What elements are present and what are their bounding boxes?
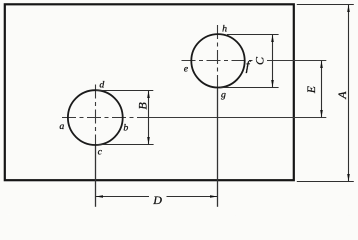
svg-text:B: B [136,102,150,110]
dim C arrow down [271,80,274,88]
dim A arrow down [347,174,350,182]
svg-text:a: a [59,121,64,132]
right hole centerline vertical extension [216,89,218,207]
label C [253,54,268,68]
right hole centerline horizontal (through e-f, extends to E dim) [182,60,251,62]
svg-text:g: g [221,90,226,101]
dim C extension line top [227,34,279,36]
dim A extension line top [297,4,354,6]
right hole centerline vertical (through g-h, extends to D dim) [217,25,219,89]
left hole centerline horizontal extension [137,116,326,118]
dim E arrow up [320,61,323,69]
dim D arrow left [95,195,103,198]
dim C extension line bottom [220,87,279,89]
dim A extension line bottom [297,181,354,183]
svg-text:c: c [98,146,103,157]
plate outline [5,4,294,180]
dim E line [320,61,322,118]
label D [149,192,167,205]
right hole centerline horizontal extension [250,60,326,62]
svg-text:D: D [152,193,162,207]
dim A arrow up [347,5,350,13]
dim B arrow down [147,137,150,145]
dim C arrow up [271,35,274,43]
svg-text:d: d [99,79,104,90]
dim B extension line top [96,89,153,91]
dim C line [272,35,274,88]
dim B arrow up [147,90,150,98]
right hole circle [191,34,244,87]
svg-text:b: b [123,122,128,133]
dim E arrow down [320,110,323,118]
svg-text:e: e [184,63,189,74]
svg-text:h: h [222,23,227,34]
left hole circle [68,90,123,145]
svg-text:A: A [335,91,349,100]
left hole centerline vertical extension [94,146,96,207]
svg-text:E: E [306,86,318,94]
dim B extension line bottom [96,143,154,145]
dim B line [147,90,149,144]
svg-text:C: C [253,56,267,65]
dim D arrow right [210,195,218,198]
dim A line [347,5,349,182]
left hole centerline vertical (through c-d, extends to D dim) [94,84,96,145]
dim D line [95,195,217,197]
left hole centerline horizontal (through a-b, extends to E dim) [62,116,137,118]
